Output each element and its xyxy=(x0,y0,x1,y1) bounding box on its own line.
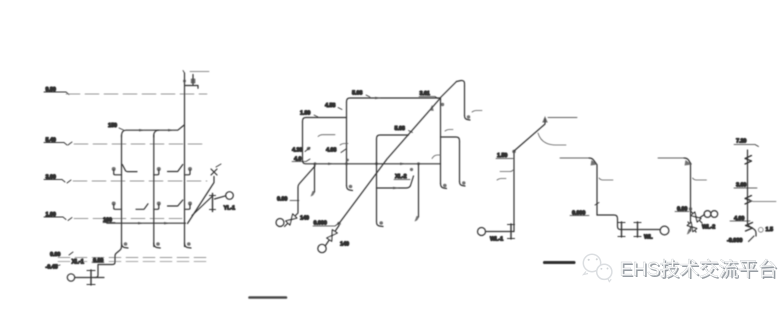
label 5.08 top xyxy=(352,91,370,97)
label 4.08 row xyxy=(326,148,346,154)
watermark logo bubbles xyxy=(583,254,612,281)
level label 5.40 xyxy=(44,138,72,146)
label 0.00 bottom xyxy=(50,252,73,258)
svg-text:0.00: 0.00 xyxy=(277,197,287,203)
svg-text:4.30: 4.30 xyxy=(292,148,302,154)
arrow on top pipe xyxy=(139,129,145,132)
floor branch row2 riser A3 xyxy=(185,202,193,210)
tick riser D xyxy=(595,203,599,206)
bottom run D xyxy=(597,215,660,230)
vent arrow C xyxy=(542,116,548,124)
label 0.00 mid xyxy=(313,221,339,227)
link to cleanout circle xyxy=(215,196,226,199)
upper right horizontal xyxy=(457,80,465,86)
V6 foot dot xyxy=(379,221,383,225)
riser B-V2 xyxy=(440,98,442,184)
link to circles E xyxy=(700,215,705,218)
riser A1 xyxy=(121,135,123,247)
level line 5.40 xyxy=(74,143,207,145)
svg-text:WL: WL xyxy=(644,235,653,241)
leader dash D xyxy=(599,178,613,180)
svg-text:5.08: 5.08 xyxy=(352,91,362,97)
label E left xyxy=(675,207,689,213)
scale bar left xyxy=(250,296,287,299)
label 0.00 under xyxy=(92,258,104,264)
level label 9.80 xyxy=(44,87,69,95)
bottom trap riser A2 xyxy=(154,242,161,248)
pipe label 150 xyxy=(108,123,124,130)
svg-text:-0.030: -0.030 xyxy=(727,238,742,244)
scale bar right xyxy=(545,261,575,264)
check valve A bottom xyxy=(87,270,95,285)
leader dash near V2 top xyxy=(445,130,453,132)
svg-text:5.08: 5.08 xyxy=(395,126,405,132)
slope circle F xyxy=(758,227,763,232)
riser D xyxy=(596,165,598,215)
long diagonal D2 xyxy=(339,99,440,224)
mid horizontal H5 xyxy=(377,135,409,139)
riser B-V3 xyxy=(464,86,466,116)
bottom trap riser A3 xyxy=(185,242,192,248)
riser E bottom arrow xyxy=(687,229,691,235)
leader dash F xyxy=(749,199,776,202)
diagonal D1 to upper right xyxy=(441,82,457,98)
riser B-V1 xyxy=(346,102,348,186)
drain cap circle A xyxy=(67,274,74,281)
arrow main B 1 xyxy=(328,163,334,166)
riser A1 bottom jog xyxy=(75,247,122,278)
leader wedge bottom left xyxy=(46,264,61,270)
leader dash right of V3 xyxy=(472,111,482,113)
ground level line lower xyxy=(58,261,207,263)
vent check symbol xyxy=(183,71,198,89)
riser B-V6 xyxy=(377,139,384,227)
flanged valve A xyxy=(210,194,216,212)
top horizontal pipe xyxy=(122,125,185,137)
riser B-V7 down-arrow xyxy=(415,164,419,222)
svg-text:140: 140 xyxy=(340,242,349,248)
label 0.00 left xyxy=(277,197,299,203)
arrow on D2 upper xyxy=(430,105,434,111)
leader dash right of V4 xyxy=(497,179,506,181)
flag valve E lower xyxy=(687,222,697,232)
label C mid xyxy=(496,153,513,159)
end circle D xyxy=(660,226,669,235)
tee elbow to riser2 xyxy=(154,130,159,137)
junction dot D2 bottom xyxy=(337,222,341,226)
branch H6 xyxy=(377,176,414,188)
jog diagonal to lower-left xyxy=(298,166,315,213)
junction dot top right xyxy=(441,103,444,106)
riser C xyxy=(513,151,515,232)
upper-left horizontal H4 xyxy=(303,118,347,123)
bottom trap riser A1 xyxy=(122,242,129,248)
floor branch row2 riser A2 xyxy=(154,200,183,209)
leader dash under H4 xyxy=(318,135,335,137)
arrow on main A 2 xyxy=(164,222,170,225)
riser B-V2 trap xyxy=(441,184,447,189)
label 4.58 xyxy=(325,103,342,110)
level line 1.00 xyxy=(74,218,182,220)
lower diagonal Z xyxy=(192,196,213,216)
top leader D xyxy=(560,157,589,159)
label D xyxy=(570,211,589,217)
drain circle B-mid xyxy=(318,244,326,252)
branch H3 xyxy=(441,137,460,142)
svg-text:WL-2: WL-2 xyxy=(702,224,715,230)
svg-text:WL-1: WL-1 xyxy=(490,236,503,242)
leader dash C left xyxy=(500,170,513,172)
zigzag arrow F xyxy=(746,223,753,232)
label 3.61 xyxy=(419,91,438,98)
top horizontal pipe B xyxy=(347,98,441,102)
bottom jog F xyxy=(748,223,757,237)
label 5.08 mid xyxy=(395,126,413,132)
twin circles E xyxy=(704,211,718,218)
label 4.30 row xyxy=(292,147,310,154)
floor branch row2 riser A1 xyxy=(112,202,148,210)
riser E xyxy=(690,165,692,231)
label 4.0 with underline xyxy=(292,156,310,162)
bottom horizontal C xyxy=(486,231,515,233)
label 100 main xyxy=(103,218,115,224)
label 7.20 xyxy=(734,139,759,147)
drain circle B-left xyxy=(276,219,284,227)
arrow on main A 1 xyxy=(138,222,144,225)
riser F xyxy=(747,150,749,223)
check valve D1 xyxy=(618,222,625,237)
svg-text:4.08: 4.08 xyxy=(326,148,336,154)
svg-text:YL-1: YL-1 xyxy=(224,206,236,212)
svg-text:XL-1: XL-1 xyxy=(72,260,85,266)
elbow into riser D xyxy=(589,158,597,164)
label 1.80 xyxy=(300,111,318,117)
level line 9.80 xyxy=(66,93,207,95)
leader dash C diag xyxy=(538,133,566,145)
riser B-V1 trap xyxy=(347,185,353,191)
arrowhead E xyxy=(685,160,693,166)
vent top leader xyxy=(190,71,209,73)
label 3.60 xyxy=(734,183,757,189)
level label 3.00 xyxy=(44,175,71,184)
stub pipe right of valve xyxy=(95,277,104,279)
arrow top pipe B xyxy=(375,97,381,100)
vent leader C xyxy=(548,117,577,119)
leader curve right of V2 mid xyxy=(432,155,441,159)
ground level line upper xyxy=(58,257,207,259)
elbow into riser E xyxy=(684,158,691,164)
cleanout circle A xyxy=(226,192,234,200)
offset symbol F2 xyxy=(745,196,752,205)
svg-text:140: 140 xyxy=(300,216,309,222)
diagonal C xyxy=(514,125,545,152)
flag valve B-left xyxy=(285,213,299,227)
vent stack riser x=184.5 xyxy=(184,73,186,247)
label 4.00 xyxy=(730,216,750,222)
main horizontal pipe B xyxy=(303,161,441,164)
riser B-V4 trap xyxy=(460,181,466,186)
diagonal to vent Z xyxy=(188,177,215,224)
svg-text:0.00: 0.00 xyxy=(50,252,60,258)
svg-text:1.80: 1.80 xyxy=(300,111,310,117)
flag valve B-mid xyxy=(326,226,340,246)
svg-text:7.20: 7.20 xyxy=(736,139,746,145)
vent X symbol xyxy=(211,164,221,175)
check valve D2 xyxy=(634,222,641,237)
svg-text:150: 150 xyxy=(108,123,117,129)
top leader E xyxy=(658,157,684,159)
floor branch row1 riser A2 xyxy=(154,165,183,175)
junction dot E xyxy=(689,207,692,210)
riser B-V5 xyxy=(302,122,304,161)
riser B-V3 trap xyxy=(465,115,471,120)
junction dots main B xyxy=(314,159,421,171)
arrow on top pipe 2 xyxy=(168,129,174,132)
leader dash E xyxy=(693,178,707,180)
level label 1.00 xyxy=(44,212,72,221)
bottom label F xyxy=(727,236,754,244)
level line 3.00 xyxy=(73,180,207,182)
arrow H6 xyxy=(393,187,399,190)
riser B-V4 xyxy=(459,142,461,182)
floor branch row1 riser A3 xyxy=(185,167,193,175)
offset symbol F1 xyxy=(745,156,752,165)
label XL-2 xyxy=(394,174,410,180)
arrowhead D xyxy=(591,160,599,166)
floor branch row1 riser A1 xyxy=(112,165,137,175)
flag valve E upper xyxy=(691,211,703,223)
riser A2 xyxy=(153,135,155,247)
main horizontal pipe A xyxy=(105,219,186,223)
check valve C xyxy=(508,224,515,239)
riser B down-arrow x314.5 xyxy=(311,164,315,197)
leader tick near V1 mid xyxy=(340,144,348,146)
drain circle C xyxy=(478,228,486,236)
svg-text:4.58: 4.58 xyxy=(325,103,335,109)
junction dot C top xyxy=(512,150,516,154)
arrow main B 2 xyxy=(400,163,406,166)
svg-text:1.5: 1.5 xyxy=(766,227,773,233)
svg-text:EHS技术交流平台: EHS技术交流平台 xyxy=(620,259,778,281)
